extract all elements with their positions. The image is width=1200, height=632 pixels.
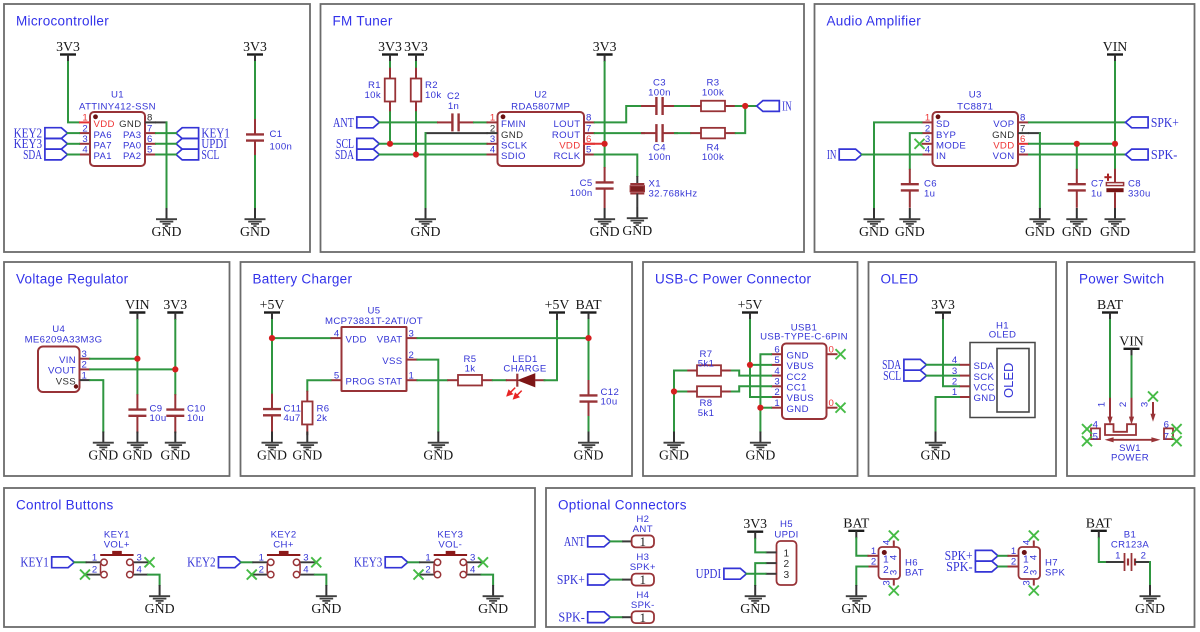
wire R2 to SDA net [415, 112, 417, 154]
label R2 10k [425, 80, 442, 101]
wire U3 VON to SPK- [1029, 154, 1126, 156]
wire SCL to H1 [927, 375, 960, 377]
svg-text:Battery Charger: Battery Charger [253, 272, 353, 287]
svg-text:1: 1 [774, 398, 780, 409]
junction +5V/VBUS [747, 362, 753, 368]
ground (H6) [841, 585, 871, 616]
svg-text:SPK+: SPK+ [557, 572, 585, 587]
label R3 100k [702, 78, 724, 99]
svg-text:BAT: BAT [905, 568, 924, 579]
svg-text:5: 5 [334, 370, 340, 381]
svg-text:6: 6 [1020, 134, 1026, 145]
svg-text:SPK+: SPK+ [1151, 115, 1179, 130]
section frame: Optional Connectors [546, 488, 1195, 627]
svg-text:330u: 330u [1128, 188, 1151, 199]
wire VIN down [136, 320, 138, 359]
svg-text:VDD: VDD [94, 119, 115, 130]
net flag KEY3 (button) [354, 555, 408, 570]
wire SPK+ to H3 [610, 579, 622, 581]
svg-text:Audio Amplifier: Audio Amplifier [827, 14, 922, 29]
svg-text:CHARGE: CHARGE [503, 364, 546, 375]
svg-text:Power Switch: Power Switch [1079, 272, 1164, 287]
wire GND chain down [759, 408, 761, 432]
label LED1 CHARGE [503, 354, 546, 375]
net flag ANT (connector) [564, 534, 610, 549]
battery B1 CR123A [1106, 550, 1150, 571]
svg-text:CC2: CC2 [787, 372, 807, 383]
label H3 SPK+ [630, 552, 656, 573]
ground (U2 pin2) [411, 208, 441, 239]
connector H3 SPK+ [622, 572, 654, 587]
wire +5V to U5 VDD [272, 337, 331, 339]
wire U1 pin8 to GND (black jog) [156, 121, 167, 123]
capacitor C12 [580, 380, 598, 417]
no-connect USB1 pad0 top [836, 349, 846, 359]
svg-text:SDIO: SDIO [501, 151, 526, 162]
svg-text:GND: GND [119, 119, 141, 130]
svg-text:6: 6 [774, 344, 780, 355]
svg-text:U1: U1 [111, 90, 124, 101]
power flag +5V (LED) [545, 297, 570, 320]
wire SDA to U2 pin4 [379, 154, 486, 156]
svg-text:1: 1 [783, 549, 789, 560]
svg-text:3: 3 [490, 134, 496, 145]
net flag KEY2 [14, 126, 68, 141]
svg-text:3V3: 3V3 [56, 39, 80, 54]
wire +5V to C11 [271, 338, 273, 394]
svg-text:7: 7 [1020, 123, 1026, 134]
svg-text:3: 3 [470, 552, 476, 563]
svg-text:VDD: VDD [993, 141, 1014, 152]
ground (H5) [740, 585, 770, 616]
power flag 3V3 (R2) [404, 39, 428, 62]
label R5 1k [464, 354, 477, 375]
svg-text:IN: IN [782, 98, 792, 113]
wire 3V3 down to U2 VDD [604, 62, 606, 144]
wire 3V3 to H1 VCC [943, 320, 959, 386]
svg-text:4: 4 [137, 565, 143, 576]
no-connect H7 pin3 [1029, 586, 1039, 596]
power flag BAT (B1) [1086, 515, 1113, 538]
label H2 ANT [633, 514, 653, 535]
wire VIN down to C8 [1114, 144, 1116, 169]
connector H2 ANT [622, 534, 654, 549]
svg-text:4u7: 4u7 [284, 413, 301, 424]
svg-text:10u: 10u [187, 413, 204, 424]
svg-text:100n: 100n [648, 88, 671, 99]
svg-text:GND: GND [1025, 224, 1055, 239]
svg-text:3: 3 [137, 552, 143, 563]
wire BAT to H6 pin1 [856, 538, 867, 556]
svg-text:Control Buttons: Control Buttons [16, 498, 114, 513]
label R1 10k [364, 80, 381, 101]
wire U5 VBAT to BAT net [418, 337, 589, 339]
svg-text:PA3: PA3 [123, 130, 141, 141]
svg-text:2: 2 [1118, 402, 1129, 407]
power flag 3V3 (OLED) [931, 297, 955, 320]
power flag +5V (USB) [738, 297, 763, 320]
resistor R5 [447, 375, 493, 386]
power flag BAT (switch) [1097, 297, 1124, 320]
svg-text:POWER: POWER [1111, 453, 1149, 464]
svg-text:VSS: VSS [382, 356, 402, 367]
ground (R6) [292, 432, 322, 463]
wire R1 to SCL net [389, 112, 391, 144]
svg-text:100k: 100k [702, 88, 724, 99]
svg-text:KEY2: KEY2 [187, 555, 216, 570]
no-connect SW1 pin3 [1148, 391, 1158, 401]
label KEY1 VOL+ [104, 530, 130, 551]
wire ANT to C2 [379, 121, 437, 123]
wire BAT to B1 [1099, 538, 1106, 562]
connector H6 BAT [868, 539, 901, 586]
svg-text:5: 5 [147, 145, 153, 156]
svg-text:GND: GND [622, 223, 652, 238]
svg-text:RDA5807MP: RDA5807MP [511, 102, 570, 113]
no-connect KEY1 pin3 [145, 557, 155, 567]
svg-text:KEY1: KEY1 [20, 555, 49, 570]
label C2 1n [447, 91, 460, 112]
svg-text:GND: GND [841, 601, 871, 616]
wire to pin1 GND [760, 407, 771, 409]
ground (C10) [160, 432, 190, 463]
svg-text:1: 1 [409, 370, 415, 381]
net flag IN [757, 98, 792, 113]
label SW1 POWER [1111, 443, 1149, 464]
wire U3 pin1 SD to ground [874, 122, 922, 208]
svg-text:VBUS: VBUS [787, 361, 815, 372]
wire B1 to ground [1149, 562, 1151, 585]
label C3 100n [648, 78, 671, 99]
wire R7 left down [674, 371, 686, 392]
wire SPK- to H7 pin2 [998, 566, 1008, 568]
ground (U3 pin7) [1025, 208, 1055, 239]
svg-text:C1: C1 [270, 129, 283, 140]
junction VIN [134, 356, 140, 362]
net flag SCL [336, 136, 379, 151]
ground (C9) [122, 432, 152, 463]
ground (X1) [622, 207, 652, 238]
connector H4 SPK- [622, 610, 654, 625]
svg-text:Microcontroller: Microcontroller [16, 14, 109, 29]
svg-text:GND: GND [501, 130, 523, 141]
wire U2 pin2 down to ground [425, 133, 427, 208]
wire SPK+ to H7 pin1 [998, 555, 1008, 557]
svg-text:10u: 10u [601, 397, 618, 408]
label C12 10u [601, 387, 620, 408]
no-connect KEY2 pin3 [311, 557, 321, 567]
wire U4 VOUT to 3V3 net [90, 368, 175, 370]
connector H7 SPK [1008, 539, 1041, 586]
svg-text:6: 6 [147, 134, 153, 145]
wire R4 up to IN net [736, 106, 745, 133]
svg-text:4: 4 [925, 145, 931, 156]
svg-text:PA2: PA2 [123, 151, 141, 162]
wire H5 pin2 to ground [755, 563, 765, 585]
wire SCL to U2 pin3 [379, 143, 486, 145]
svg-text:100n: 100n [648, 152, 671, 163]
svg-text:GND: GND [659, 447, 689, 462]
label C7 1u [1091, 179, 1104, 200]
svg-text:GND: GND [122, 447, 152, 462]
power flag BAT (H6) [843, 515, 870, 538]
svg-text:USB-C Power Connector: USB-C Power Connector [655, 272, 812, 287]
svg-text:4: 4 [1093, 420, 1099, 431]
svg-text:6: 6 [1164, 420, 1170, 431]
net flag SPK- (H7) [946, 559, 998, 574]
net flag SDA [882, 357, 926, 372]
svg-text:GND: GND [590, 224, 620, 239]
svg-text:U3: U3 [969, 90, 982, 101]
power flag 3V3 (C1) [243, 39, 267, 62]
svg-text:1: 1 [259, 552, 265, 563]
ground (C11) [257, 432, 287, 463]
wire C2 to U2 pin1 [474, 121, 487, 123]
svg-text:BAT: BAT [575, 297, 602, 312]
svg-text:4: 4 [1028, 554, 1039, 560]
svg-text:2: 2 [82, 123, 88, 134]
net flag SPK- (connector) [558, 610, 610, 625]
junction +5V/C11 [269, 335, 275, 341]
svg-text:GND: GND [152, 224, 182, 239]
label C8 330u [1128, 179, 1151, 200]
svg-text:3: 3 [1140, 402, 1151, 407]
label H7 SPK [1045, 557, 1065, 578]
wire U2 LOUT to C3 [595, 106, 644, 122]
label H4 SPK- [631, 590, 655, 611]
svg-text:1: 1 [640, 534, 647, 549]
power flag 3V3 (R1) [378, 39, 402, 62]
wire SDA to pin4 [68, 154, 80, 156]
svg-text:GND: GND [88, 447, 118, 462]
wire H6 pin2 to ground [856, 567, 867, 586]
net flag SPK+ (connector) [557, 572, 610, 587]
net flag UPDI (H5) [696, 566, 747, 581]
net flag SDA [335, 147, 379, 162]
svg-text:3: 3 [925, 134, 931, 145]
svg-text:5k1: 5k1 [698, 358, 715, 369]
capacitor C4 [641, 124, 678, 142]
junction 3V3 [172, 366, 178, 372]
svg-text:1: 1 [82, 370, 88, 381]
wire to pin5 VBUS [750, 364, 771, 366]
svg-text:VBAT: VBAT [377, 334, 403, 345]
svg-text:SDA: SDA [335, 147, 354, 162]
svg-text:3V3: 3V3 [243, 39, 267, 54]
svg-text:GND: GND [423, 447, 453, 462]
svg-text:8: 8 [586, 113, 592, 124]
label H5 UPDI [774, 519, 798, 540]
svg-text:5: 5 [1093, 432, 1099, 443]
svg-text:1: 1 [92, 552, 98, 563]
net flag KEY1 (button) [20, 555, 74, 570]
svg-text:3V3: 3V3 [378, 39, 402, 54]
svg-text:0: 0 [829, 344, 835, 355]
audio amplifier U3 TC8871 [922, 90, 1030, 167]
svg-text:VDD: VDD [559, 141, 580, 152]
power flag +5V (charger) [260, 297, 285, 320]
wire LED1 to +5V [545, 320, 558, 380]
power flag VIN (switch) [1119, 333, 1144, 356]
svg-text:SCL: SCL [201, 147, 219, 162]
no-connect SW1 pin7 [1172, 436, 1182, 446]
svg-text:2: 2 [925, 123, 931, 134]
wire VDD to C5 [604, 144, 606, 167]
svg-text:ROUT: ROUT [552, 130, 581, 141]
wire KEY1 pin4 to ground [148, 575, 160, 585]
svg-text:VOL-: VOL- [438, 540, 462, 551]
connector H1 OLED [952, 321, 1035, 418]
wire U5 STAT to R5 [418, 379, 448, 381]
svg-text:PROG: PROG [346, 376, 376, 387]
svg-text:GND: GND [145, 601, 175, 616]
svg-text:VIN: VIN [1103, 39, 1128, 54]
svg-text:ANT: ANT [564, 534, 585, 549]
svg-text:SPK-: SPK- [631, 600, 655, 611]
svg-text:4: 4 [888, 554, 899, 560]
svg-text:MODE: MODE [936, 141, 966, 152]
ground (C7) [1062, 208, 1092, 239]
svg-text:GND: GND [1062, 224, 1092, 239]
wire KEY3 to pin3 [68, 143, 80, 145]
svg-text:1: 1 [490, 113, 496, 124]
power flag 3V3 (reg) [163, 297, 187, 320]
ground (C8) [1100, 208, 1130, 239]
wire U2 pin2 GND jog [426, 132, 487, 134]
wire 3V3 to R1 [389, 62, 391, 68]
svg-text:100n: 100n [270, 141, 293, 152]
power flag 3V3 (U2 VDD) [593, 39, 617, 62]
svg-text:3: 3 [888, 570, 899, 575]
switch SW1 POWER [1091, 398, 1173, 443]
svg-text:1: 1 [640, 572, 647, 587]
svg-text:1n: 1n [448, 101, 459, 112]
svg-text:SCLK: SCLK [501, 141, 528, 152]
section frame: USB-C Power Connector [643, 262, 858, 476]
section frame: Control Buttons [4, 488, 535, 627]
wire 3V3 down [174, 320, 176, 369]
wire KEY3 pin4 to ground [482, 575, 494, 585]
no-connect SW1 pin6 [1172, 424, 1182, 434]
svg-text:VCC: VCC [974, 383, 995, 394]
wire 3V3 to U1 pin1 [68, 62, 79, 122]
svg-text:GND: GND [257, 447, 287, 462]
svg-text:5k1: 5k1 [698, 408, 715, 419]
svg-text:SPK-: SPK- [946, 559, 973, 574]
wire IN to U3 pin4 [862, 154, 922, 156]
wire C7 up to VDD [1076, 144, 1078, 169]
svg-text:GND: GND [292, 447, 322, 462]
svg-text:VIN: VIN [125, 297, 150, 312]
wire U4 VSS to ground [90, 380, 103, 431]
wire U2 pin6 VDD (red) [584, 143, 605, 145]
label R7 5k1 [698, 349, 715, 370]
svg-text:8: 8 [1020, 113, 1026, 124]
capacitor C11 [263, 394, 281, 433]
svg-text:OLED: OLED [1001, 363, 1016, 398]
power flag VIN [1103, 39, 1128, 62]
svg-text:2: 2 [774, 387, 780, 398]
svg-text:32.768kHz: 32.768kHz [649, 188, 698, 199]
svg-text:1: 1 [640, 610, 647, 625]
wire R8 to CC1 [732, 386, 771, 391]
svg-text:ANT: ANT [633, 524, 653, 535]
svg-text:ATTINY412-SSN: ATTINY412-SSN [79, 102, 156, 113]
svg-text:4: 4 [490, 145, 496, 156]
connector H5 UPDI [766, 541, 797, 585]
capacitor C5 [596, 167, 614, 208]
capacitor C9 [128, 394, 146, 433]
wire BAT to C12 [588, 338, 590, 380]
svg-text:2: 2 [82, 360, 88, 371]
svg-text:3V3: 3V3 [931, 297, 955, 312]
svg-text:2: 2 [783, 559, 789, 570]
net flag KEY2 (button) [187, 555, 241, 570]
svg-text:GND: GND [745, 447, 775, 462]
label C4 100n [648, 142, 671, 163]
svg-text:4: 4 [303, 565, 309, 576]
wire +5V down [271, 320, 273, 338]
svg-text:3: 3 [882, 580, 893, 585]
svg-text:10u: 10u [150, 413, 167, 424]
wire R7/R8 to ground [673, 392, 675, 432]
svg-text:IN: IN [827, 147, 837, 162]
section frame: FM Tuner [321, 4, 805, 252]
capacitor C6 [901, 169, 919, 208]
push button switch KEY2 CH+ [252, 551, 315, 578]
wire R5 to LED1 [493, 379, 506, 381]
wire R7 to CC2 [732, 371, 771, 376]
label KEY3 VOL- [437, 530, 463, 551]
svg-text:SPK-: SPK- [558, 610, 585, 625]
wire U2 RCLK to X1 [595, 155, 638, 177]
svg-text:BAT: BAT [1086, 515, 1113, 530]
wire C1 to ground [254, 156, 256, 208]
svg-text:VOUT: VOUT [48, 366, 76, 377]
ground (U1 pin8) [152, 208, 182, 239]
net flag KEY1 [176, 126, 230, 141]
resistor R2 [411, 68, 422, 113]
label R8 5k1 [698, 398, 715, 419]
resistor R6 [302, 391, 313, 436]
svg-text:VON: VON [993, 151, 1015, 162]
label C5 100n [570, 178, 593, 199]
svg-text:GND: GND [740, 601, 770, 616]
svg-text:3V3: 3V3 [743, 516, 767, 531]
svg-text:2: 2 [92, 565, 98, 576]
resistor R7 [686, 365, 732, 376]
svg-text:SCK: SCK [974, 372, 995, 383]
svg-text:KEY3: KEY3 [354, 555, 383, 570]
wire U3 pin7 down to ground [1039, 133, 1041, 208]
wire U5 PROG to R6 [307, 380, 330, 391]
no-connect KEY3 pin3 [478, 557, 488, 567]
wire pin7 to KEY1 [156, 132, 176, 134]
svg-text:100n: 100n [570, 188, 593, 199]
svg-text:CH+: CH+ [273, 540, 294, 551]
svg-text:10k: 10k [364, 90, 381, 101]
svg-text:+5V: +5V [545, 297, 570, 312]
wire U3 VDD to VIN [1029, 143, 1115, 145]
svg-text:GND: GND [574, 447, 604, 462]
svg-text:U5: U5 [368, 306, 381, 317]
ground (U3 SD) [859, 208, 889, 239]
wire BAT to SW1 pin1 [1109, 320, 1111, 398]
ground (U4 VSS) [88, 432, 118, 463]
svg-text:BAT: BAT [1097, 297, 1124, 312]
junction VDD/C7 [1074, 141, 1080, 147]
junction GND pins [757, 405, 763, 411]
